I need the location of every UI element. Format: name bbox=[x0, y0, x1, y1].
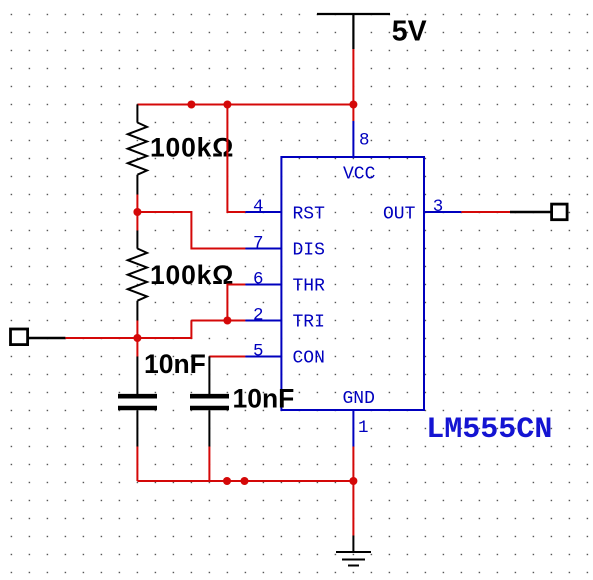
wire: OUT red segment bbox=[461, 211, 510, 213]
power supply V1 5V bbox=[317, 14, 390, 49]
connector J2 (right square) bbox=[552, 204, 568, 220]
wire: bottom ground rail bbox=[137, 480, 353, 482]
pin 6 lead THR bbox=[245, 284, 281, 286]
svg-text:1: 1 bbox=[358, 418, 369, 438]
resistor R2 100kΩ bbox=[128, 231, 147, 321]
pin 7 lead DIS bbox=[245, 248, 281, 250]
svg-text:LM555CN: LM555CN bbox=[426, 413, 552, 447]
svg-text:10nF: 10nF bbox=[144, 349, 206, 379]
svg-text:OUT: OUT bbox=[383, 205, 416, 225]
connector J1 (left square) bbox=[11, 329, 28, 345]
wire: pin 6 THR down to TRI net bbox=[227, 285, 245, 321]
IC U1 LM555CN body bbox=[281, 157, 424, 410]
wire: node A to pin 7 DIS bbox=[137, 212, 245, 249]
svg-text:TRI: TRI bbox=[293, 313, 325, 333]
wire: left connector black segment bbox=[26, 337, 65, 340]
wire: left connector red segment bbox=[65, 337, 137, 339]
node: bottom rail junction 2 bbox=[241, 477, 249, 485]
svg-text:100kΩ: 100kΩ bbox=[150, 260, 234, 290]
wire: 5V to top rail bbox=[352, 49, 354, 121]
svg-text:3: 3 bbox=[433, 197, 444, 217]
node: bottom rail / ground junction bbox=[349, 477, 357, 485]
wire: node C right and up to TRI net bbox=[137, 321, 191, 339]
svg-text:2: 2 bbox=[253, 306, 264, 326]
svg-text:GND: GND bbox=[343, 389, 375, 409]
capacitor C2 10nF bbox=[190, 357, 229, 447]
wire: pin 4 RST to top rail bbox=[227, 105, 245, 213]
capacitor C1 10nF bbox=[118, 357, 157, 447]
svg-text:5: 5 bbox=[253, 342, 264, 362]
wire: OUT black segment bbox=[510, 211, 551, 214]
wire: rail down to ground bbox=[352, 447, 354, 536]
pin 5 lead CON bbox=[245, 356, 281, 358]
svg-text:100kΩ: 100kΩ bbox=[150, 133, 234, 163]
node: top rail / supply junction bbox=[349, 101, 357, 109]
wire: R2 bottom to node C bbox=[136, 321, 138, 357]
svg-text:VCC: VCC bbox=[343, 165, 376, 185]
svg-text:7: 7 bbox=[253, 234, 264, 254]
node C: R2/C1/input junction bbox=[133, 334, 141, 342]
svg-text:10nF: 10nF bbox=[233, 384, 295, 414]
node B: THR/TRI junction bbox=[223, 317, 231, 325]
pin 4 lead RST bbox=[245, 211, 281, 213]
wire: pin 5 CON to C2 bbox=[209, 356, 245, 358]
svg-text:4: 4 bbox=[253, 197, 264, 217]
pin 8 lead VCC bbox=[352, 121, 354, 157]
pin 1 lead GND bbox=[352, 410, 354, 447]
svg-text:CON: CON bbox=[293, 349, 325, 369]
wire: C2 bottom to ground rail bbox=[208, 447, 210, 482]
wire: TRI net horizontal to pin 2 bbox=[191, 320, 245, 322]
svg-text:6: 6 bbox=[253, 270, 264, 290]
wire: R1 to node A bbox=[136, 195, 138, 231]
node: top rail junction 1 bbox=[187, 101, 195, 109]
node: top rail junction 2 bbox=[223, 101, 231, 109]
pin 3 lead OUT bbox=[424, 211, 461, 213]
svg-text:THR: THR bbox=[293, 277, 326, 297]
svg-text:5V: 5V bbox=[392, 16, 427, 48]
wire: top rail bbox=[137, 104, 353, 106]
svg-text:RST: RST bbox=[293, 205, 326, 225]
svg-text:DIS: DIS bbox=[293, 241, 325, 261]
ground symbol bbox=[336, 536, 371, 566]
node A: R1/R2/pin7 junction bbox=[133, 208, 141, 216]
svg-text:8: 8 bbox=[359, 131, 370, 151]
node: bottom rail junction 1 bbox=[223, 477, 231, 485]
wire: C1 bottom to ground rail bbox=[136, 447, 138, 482]
pin 2 lead TRI bbox=[245, 320, 281, 322]
resistor R1 100kΩ bbox=[128, 105, 147, 195]
